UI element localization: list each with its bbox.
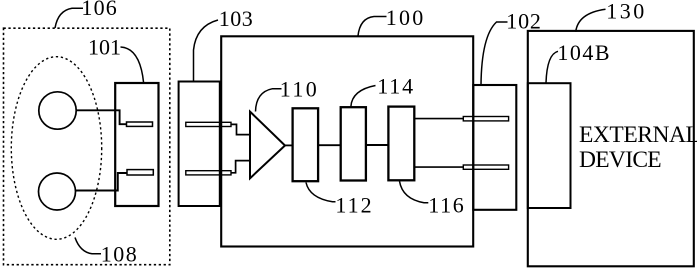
svg-text:130: 130	[606, 0, 647, 23]
svg-text:EXTERNAL: EXTERNAL	[579, 122, 697, 148]
svg-text:116: 116	[428, 193, 465, 218]
svg-text:104B: 104B	[557, 40, 611, 65]
svg-text:101: 101	[88, 35, 121, 60]
svg-text:110: 110	[280, 77, 319, 102]
svg-text:103: 103	[219, 6, 254, 31]
svg-text:112: 112	[335, 193, 373, 218]
svg-text:106: 106	[81, 0, 118, 20]
svg-text:DEVICE: DEVICE	[579, 147, 661, 173]
svg-text:114: 114	[377, 74, 415, 99]
svg-text:100: 100	[386, 5, 426, 30]
svg-text:102: 102	[506, 9, 541, 34]
svg-text:108: 108	[101, 242, 139, 267]
